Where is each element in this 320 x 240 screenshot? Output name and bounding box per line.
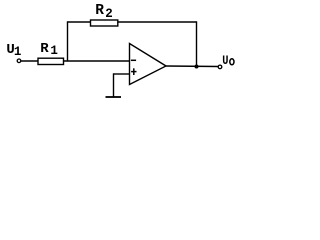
wire: feedback right vertical, down to output node <box>196 21 198 66</box>
label U1 <box>6 42 21 59</box>
terminal: output U0 <box>218 65 222 69</box>
non-inverting input '+' marker <box>131 71 136 73</box>
label R2 <box>95 3 113 21</box>
resistor R2 <box>91 20 118 26</box>
label R1 <box>40 41 58 58</box>
svg-text:R: R <box>95 3 104 19</box>
op-amp triangle body <box>130 44 167 85</box>
svg-text:1: 1 <box>14 45 22 59</box>
node: output junction dot <box>195 65 199 69</box>
wire: input U1 terminal to op-amp inverting input (through R1) <box>21 60 130 62</box>
wire: op-amp output to U0 terminal <box>166 65 218 68</box>
op-amp <box>130 44 167 85</box>
svg-text:R: R <box>40 41 49 57</box>
svg-text:U: U <box>222 53 228 68</box>
wire: non-inverting input horizontal stub <box>114 73 130 75</box>
label U0 <box>222 53 234 68</box>
svg-text:1: 1 <box>50 44 58 58</box>
wire: feedback top horizontal (through R2) <box>68 21 197 23</box>
wire: feedback left vertical, taps inverting input node <box>67 21 69 61</box>
wire: non-inverting input down to ground <box>113 73 115 97</box>
inverting input '-' marker <box>131 59 136 61</box>
ground <box>106 96 122 98</box>
svg-text:2: 2 <box>105 7 113 21</box>
resistor R1 <box>38 58 64 64</box>
terminal: input U1 <box>17 59 21 63</box>
